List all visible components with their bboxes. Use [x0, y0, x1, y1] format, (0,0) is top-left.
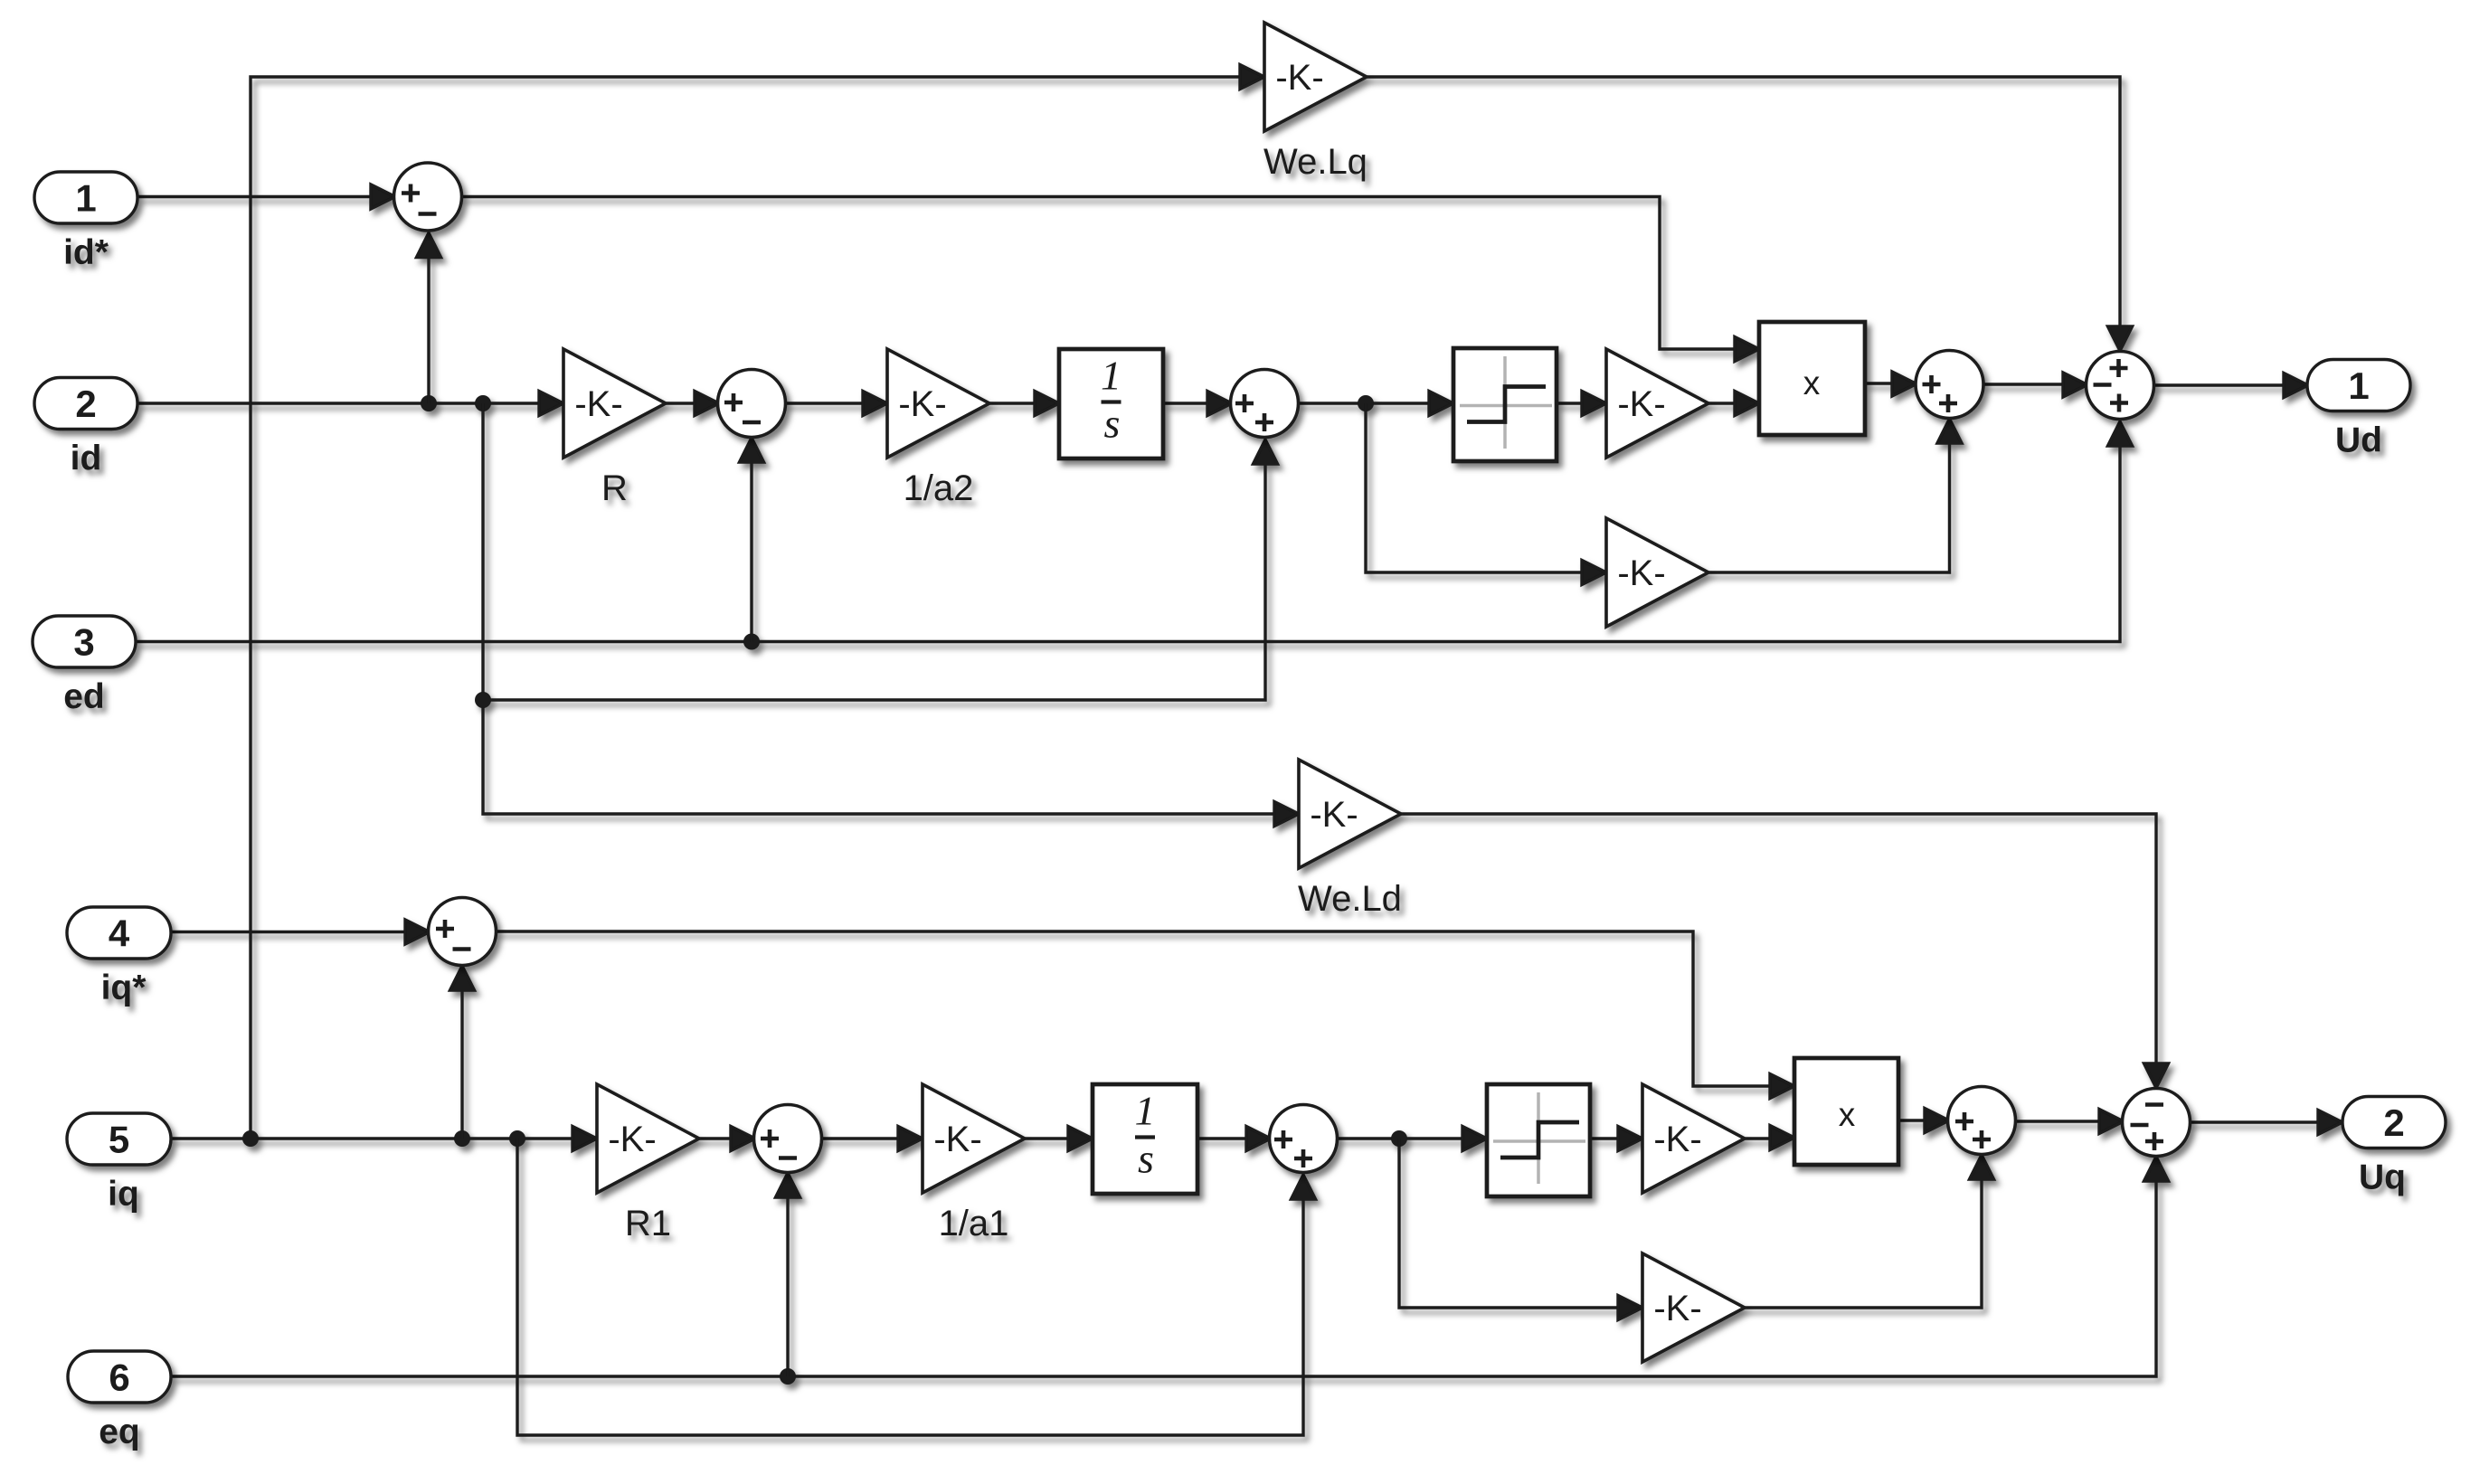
wire iq down branch to sum S8q bottom input — [517, 1139, 1303, 1435]
wire gain We.Lq to sum S5 top input — [1367, 77, 2120, 326]
wire gain K4 to sum S9 bottom input — [1745, 1179, 1982, 1308]
output port 1 Ud — [2307, 360, 2410, 411]
wire port6 eq line to sum S10 bottom input — [171, 1181, 2156, 1376]
junction dot iq line down branch — [509, 1130, 525, 1147]
junction dot iq line to S6 — [454, 1130, 470, 1147]
wire gain R to sum S2 — [666, 402, 695, 404]
junction dot ed line — [743, 634, 760, 650]
wire product X1 to sum S4 — [1865, 382, 1892, 384]
svg-text:-K-: -K- — [1617, 553, 1665, 593]
wire ed line up to sum S2 minus input — [750, 462, 752, 642]
wire port4 to sum S6 — [171, 931, 405, 933]
junction dot id line A — [421, 395, 437, 411]
integrator 2 (1/s) — [1093, 1084, 1197, 1194]
svg-text:-K-: -K- — [1310, 795, 1358, 835]
sum S10 output q — [2123, 1089, 2191, 1157]
wire eq line up to sum S7 minus input — [786, 1197, 789, 1376]
gain We.Lq — [1264, 23, 1367, 131]
wire port3 ed line to sum S5 bottom input — [136, 446, 2120, 642]
wire feedback junction down to gain K2 — [1366, 403, 1584, 572]
svg-text:x: x — [1803, 364, 1821, 402]
svg-text:We.Ld: We.Ld — [1298, 879, 1402, 919]
wire feedback junction q down to gain K4 — [1399, 1139, 1620, 1308]
junction dot iq riser — [242, 1130, 259, 1147]
wire sum S9 to sum S10 — [2014, 1120, 2099, 1122]
input port 3 ed — [33, 616, 136, 667]
svg-text:eq: eq — [99, 1413, 140, 1451]
svg-text:-K-: -K- — [933, 1120, 981, 1159]
sum S1 id* minus id — [394, 163, 462, 231]
sum S3 integrator plus — [1231, 370, 1299, 438]
svg-text:-K-: -K- — [608, 1120, 656, 1159]
svg-text:-K-: -K- — [574, 384, 622, 424]
sum S5 output d — [2087, 352, 2154, 420]
gain K2 feedback d — [1606, 518, 1708, 627]
sum S8q integrator plus — [1270, 1105, 1338, 1173]
wire gain We.Ld to sum S8 top input — [1401, 814, 2156, 1063]
gain K3 after saturation 2 — [1642, 1084, 1745, 1193]
wire gain R1 to sum S7 — [699, 1137, 731, 1139]
gain R1 — [597, 1084, 699, 1193]
svg-text:2: 2 — [2383, 1101, 2404, 1144]
svg-text:4: 4 — [109, 912, 130, 955]
wire sum S4 to sum S5 — [1983, 383, 2063, 385]
gain We.Ld — [1299, 760, 1401, 868]
gain R — [563, 349, 666, 458]
svg-text:iq*: iq* — [101, 969, 147, 1007]
svg-text:5: 5 — [109, 1119, 129, 1161]
wire product X2 to sum S9 — [1898, 1119, 1925, 1121]
wire id line up to sum S1 minus input — [427, 257, 430, 403]
svg-text:1: 1 — [1101, 353, 1121, 399]
output port 2 Uq — [2342, 1097, 2446, 1148]
wire gain 1/a1 to integrator 2 — [1025, 1137, 1070, 1139]
wire integrator 2 to sum S8q — [1197, 1137, 1246, 1139]
integrator 1 (1/s) — [1059, 349, 1163, 458]
wire sum S2 to gain 1/a2 — [784, 402, 865, 404]
sum S9 product plus q — [1948, 1087, 2016, 1155]
sum S4 product plus — [1916, 351, 1983, 419]
gain K1 after saturation 1 — [1606, 349, 1708, 458]
wire port2 to gain R — [137, 402, 541, 404]
input port 5 iq — [67, 1113, 171, 1165]
sum S7 after R1 — [754, 1105, 822, 1173]
svg-text:1/a2: 1/a2 — [904, 468, 974, 508]
junction dot id riser — [475, 692, 491, 708]
wire sum S1 to product X1 top input — [460, 197, 1737, 350]
svg-text:-K-: -K- — [1653, 1289, 1701, 1328]
wire id riser branch to sum S3 bottom input — [483, 464, 1265, 700]
svg-text:R1: R1 — [625, 1204, 671, 1243]
input port 4 iq* — [67, 907, 171, 959]
wire saturation 1 to gain K1 — [1557, 402, 1584, 404]
wire port1 to sum S1 — [137, 195, 371, 198]
sum S2 after R — [718, 370, 786, 438]
product X1 — [1759, 322, 1865, 435]
gain 1/a1 — [923, 1084, 1025, 1193]
saturation 2 — [1487, 1084, 1590, 1196]
svg-text:2: 2 — [75, 383, 96, 425]
junction dot after sum S3 — [1358, 395, 1374, 411]
svg-text:1: 1 — [75, 177, 96, 220]
wire sum S3 to saturation 1 — [1297, 402, 1431, 404]
svg-text:1: 1 — [2348, 364, 2369, 407]
sum S6 iq* minus iq — [429, 898, 497, 966]
wire port5 iq line to gain R1 — [171, 1137, 574, 1139]
svg-text:id*: id* — [63, 233, 109, 272]
svg-text:Ud: Ud — [2335, 421, 2382, 460]
wire sum S7 to gain 1/a1 — [820, 1137, 900, 1139]
wire gain K1 to product X1 bottom input — [1708, 402, 1737, 404]
gain 1/a2 — [887, 349, 989, 458]
svg-text:-K-: -K- — [1275, 58, 1323, 98]
svg-text:-K-: -K- — [1617, 384, 1665, 424]
junction dot id line B — [475, 395, 491, 411]
svg-text:x: x — [1839, 1096, 1856, 1133]
svg-text:s: s — [1138, 1136, 1154, 1182]
wire iq line up to sum S6 minus input — [460, 990, 463, 1139]
wire gain K2 to sum S4 bottom input — [1708, 443, 1950, 572]
wire sum S8q to saturation 2 — [1336, 1137, 1464, 1139]
wire sum S10 to out port Uq — [2189, 1120, 2320, 1123]
wire saturation 2 to gain K3 — [1590, 1137, 1620, 1139]
wire sum S6 to product X2 top input — [495, 931, 1772, 1086]
svg-text:-K-: -K- — [1653, 1120, 1701, 1159]
svg-text:6: 6 — [109, 1356, 129, 1399]
svg-text:ed: ed — [63, 677, 105, 716]
svg-text:1: 1 — [1135, 1088, 1156, 1134]
svg-text:3: 3 — [73, 621, 94, 664]
wire id line down to gain We.Ld — [483, 403, 1276, 814]
gain K4 feedback q — [1642, 1253, 1745, 1362]
wire integrator 1 to sum S3 — [1163, 402, 1207, 404]
svg-text:We.Lq: We.Lq — [1263, 142, 1367, 182]
wire sum S5 to out port Ud — [2153, 383, 2285, 386]
junction dot eq line — [780, 1368, 796, 1385]
svg-text:id: id — [71, 440, 102, 478]
input port 1 id* — [34, 172, 137, 223]
svg-text:s: s — [1104, 401, 1121, 447]
svg-text:Uq: Uq — [2359, 1158, 2406, 1197]
product X2 — [1794, 1058, 1898, 1165]
saturation 1 — [1453, 348, 1557, 461]
svg-text:1/a1: 1/a1 — [939, 1204, 1009, 1243]
input port 2 id — [34, 378, 137, 430]
input port 6 eq — [68, 1351, 171, 1403]
wire gain K3 to product X2 bottom input — [1745, 1137, 1772, 1139]
wire iq riser up and to gain We.Lq — [251, 77, 1242, 1139]
wire gain 1/a2 to integrator 1 — [989, 402, 1036, 404]
junction dot after sum S8q — [1391, 1130, 1407, 1147]
svg-text:iq: iq — [108, 1175, 139, 1214]
svg-text:-K-: -K- — [898, 384, 946, 424]
svg-text:R: R — [601, 468, 628, 508]
